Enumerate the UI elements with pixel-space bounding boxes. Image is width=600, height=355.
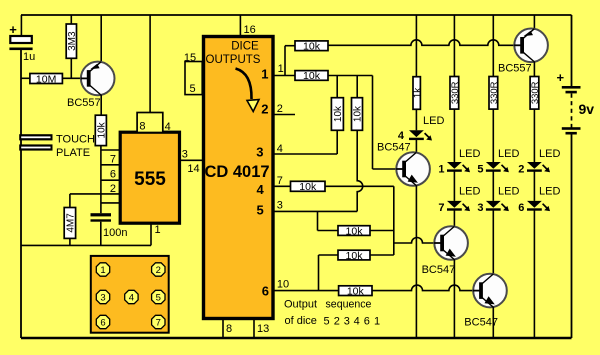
resistor R6 10k (out1) [295,70,328,82]
svg-text:1: 1 [278,63,284,75]
wire 4017 pin 13 [254,320,269,338]
wire 555 pins 8+4 supply box [137,15,163,133]
resistor R14 330R [450,77,461,110]
svg-text:16: 16 [244,24,256,36]
svg-text:1: 1 [438,163,444,175]
label output 2 inside 4017 [261,101,268,116]
svg-text:2: 2 [261,101,268,116]
label Q4 BC547 [464,316,498,328]
resistor R9 10k (out4) [291,181,326,193]
svg-text:2: 2 [334,316,340,328]
label 1 LED1 [438,163,444,175]
resistor R15 330R [489,77,500,110]
svg-text:3: 3 [182,148,188,160]
svg-text:13: 13 [257,323,269,335]
label output sequence [284,299,380,328]
svg-text:LED: LED [498,186,519,198]
dice pip 5 [152,290,165,303]
wire out5 [273,210,357,212]
pin label 4 (555) [165,121,171,133]
label 3 LED3 [477,202,483,214]
svg-text:7: 7 [156,317,161,328]
svg-text:330R: 330R [489,81,500,104]
wire to 4M7 [70,194,101,208]
svg-text:10k: 10k [303,41,321,53]
svg-text:of dice: of dice [285,315,317,327]
svg-text:330R: 330R [450,81,461,104]
svg-text:330R: 330R [530,81,541,104]
wire Q4 emitter to ground [492,307,494,338]
svg-text:3: 3 [344,316,350,328]
label LED (D4) [423,115,444,127]
svg-text:3M3: 3M3 [67,31,78,51]
svg-text:555: 555 [134,169,166,190]
svg-text:+: + [9,22,17,37]
pin label 8 (555) [139,121,145,133]
svg-text:PLATE: PLATE [56,147,90,159]
resistor R8 10k vertical (out5) [352,76,364,131]
capacitor C1 1u electrolytic [9,15,35,63]
svg-text:1: 1 [261,67,268,82]
pin label 7 (555) [110,154,116,166]
svg-text:1: 1 [374,316,380,328]
dice display box [91,256,169,333]
transistor Q2 BC547 [396,152,430,186]
svg-text:10k: 10k [346,225,364,237]
svg-text:BC557: BC557 [498,63,532,75]
wire 555 pin ladder rung2 [101,164,120,166]
wire out1 [273,75,295,77]
svg-text:10: 10 [277,279,289,291]
svg-text:OUTPUTS: OUTPUTS [206,54,261,66]
label 2 LED2 [518,163,524,175]
label 4 LED4 [398,130,405,142]
label LED (D2) [539,148,560,160]
svg-text:LED: LED [459,186,480,198]
svg-text:LED: LED [498,148,519,160]
svg-text:2: 2 [156,265,161,276]
label LED (D7) [459,186,480,198]
svg-text:6: 6 [262,284,269,299]
LED D6 [527,201,550,211]
svg-text:4: 4 [398,130,405,142]
label output 3 inside 4017 [256,144,263,159]
svg-text:BC557: BC557 [67,97,101,109]
pin label 7 (4017 out4) [277,175,283,187]
resistor R2 10M [21,73,89,85]
wire 555 pin 7 [101,149,120,151]
label LED (D5) [498,148,519,160]
svg-text:4M7: 4M7 [66,213,77,233]
pin label 10 (4017 out6) [277,279,289,291]
svg-text:7: 7 [110,154,116,166]
svg-text:LED: LED [539,186,560,198]
wire LED column 1 top [453,15,455,77]
capacitor C2 100n [91,213,128,245]
pin label 5 (4017) [190,83,196,95]
dice pip 1 [96,263,109,276]
svg-text:5: 5 [190,83,196,95]
svg-text:LED: LED [539,148,560,160]
pin label 4 (4017 out3) [277,143,283,155]
transistor Q5 BC557 (display driver) [514,15,548,77]
pin label 15 (4017) [184,52,196,64]
svg-text:5: 5 [256,203,263,218]
svg-text:6: 6 [364,316,370,328]
LED D7 [447,201,470,211]
wire Q2 emitter to ground [415,185,417,338]
resistor R13 1k [412,15,423,109]
resistor R12 10k (out6 to Q4) [339,285,372,297]
wire junction to Q3 base [394,238,437,243]
dice pip 6 [96,315,109,328]
resistor R4 4M7 [64,208,76,239]
wire LED2 to LED6 [533,171,535,201]
label 6 LED6 [518,202,524,214]
svg-text:5: 5 [156,292,161,303]
svg-text:6: 6 [110,169,116,181]
wire R15 to LED5 [492,109,494,162]
svg-text:10k: 10k [303,70,321,82]
svg-text:5: 5 [324,316,330,328]
label output 4 inside 4017 [256,182,264,197]
wire right rail lower (battery -) [571,133,573,338]
svg-text:1: 1 [100,265,105,276]
node junction out1 to 10k pair [285,46,295,76]
svg-text:LED: LED [459,148,480,160]
svg-text:10k: 10k [346,250,364,262]
battery B1 9v [557,70,595,135]
label 5 LED5 [477,163,483,175]
svg-text:5: 5 [477,163,483,175]
label Q1 BC557 [67,97,101,109]
label output 5 inside 4017 [256,203,263,218]
svg-text:6: 6 [518,202,524,214]
transistor Q1 BC557 [81,15,115,115]
wire LED column 2 top [492,15,494,77]
pin label 3 (4017 out5) [277,199,283,211]
pin label 2 (4017 out2) [277,103,283,115]
svg-text:3: 3 [477,202,483,214]
svg-text:10k: 10k [333,105,344,122]
wire R3 to 555 pin7 ladder [100,146,102,214]
svg-text:BC547: BC547 [422,264,456,276]
svg-text:1k: 1k [412,87,423,99]
svg-text:10k: 10k [353,105,364,122]
svg-text:2: 2 [110,183,116,195]
dice pip 2 [152,263,165,276]
label output 6 inside 4017 [262,284,269,299]
svg-text:3: 3 [277,199,283,211]
resistor R5 10k (to BC557 base) [295,41,328,53]
wire LED6 to ground [533,210,535,338]
svg-text:3: 3 [256,144,263,159]
label output 1 inside 4017 [261,67,268,82]
wire R8 down hop to out5 [357,130,363,211]
LED D1 [447,162,470,172]
svg-text:TOUCH: TOUCH [56,134,95,146]
arrow dice outputs rotation [236,69,260,112]
wire 4017 pin 8 [223,320,232,338]
svg-text:LED: LED [423,115,444,127]
svg-text:100n: 100n [103,227,127,239]
wire 555 pin 1 [151,223,161,245]
svg-text:7: 7 [277,175,283,187]
wire R9 to junction [325,186,394,255]
wire top positive rail [21,14,572,16]
node R1-R2 junction [70,77,72,79]
wire left rail [20,50,22,338]
label Q3 BC547 [422,264,456,276]
svg-text:2: 2 [518,163,524,175]
transistor Q3 BC547 [434,226,468,260]
wire out2 stub [273,114,295,116]
wire Q3 emitter to ground [453,259,455,338]
svg-text:2: 2 [277,103,283,115]
resistor R16 330R [530,77,541,110]
svg-text:10k: 10k [96,121,107,138]
dice pip 4 [125,290,138,303]
label 7 LED7 [438,202,444,214]
label Q2 BC547 [377,142,411,154]
transistor Q4 BC547 [473,274,507,308]
label LED (D3) [498,186,519,198]
label Q5 BC557 [498,63,532,75]
wire bottom 0V rail [21,337,572,339]
wire LED4 to Q2 [415,139,417,152]
wire R14 to LED1 [453,109,455,162]
wire 4017 pins 15+5 box [185,62,202,95]
wire LED1 to LED7 [453,171,455,201]
resistor R7 10k vertical (out3) [331,76,344,131]
wire LED7 to Q3 [453,210,455,226]
wire LED3 to Q4 [492,210,494,274]
wire oscillator ground [21,244,151,246]
svg-text:4: 4 [165,121,171,133]
wire out4 [273,185,291,187]
wire down to Q2 base [373,76,398,170]
wire LED5 to LED3 [492,171,494,201]
pin label 14 (4017) [187,163,199,175]
wire R12 to Q4 base [372,285,476,291]
pin label 2 (555) [110,183,116,195]
wire R5 to Q5 base [328,40,515,46]
svg-text:sequence: sequence [326,299,372,311]
svg-text:10k: 10k [299,181,317,193]
wire R16 to LED2 [533,109,535,162]
wire 555 pin ladder rung3 [101,179,120,181]
svg-text:10M: 10M [36,73,56,85]
svg-text:6: 6 [100,317,105,328]
svg-text:8: 8 [139,121,145,133]
svg-text:+: + [557,70,565,85]
resistor R11 10k (out6 to Q3) [319,250,394,291]
svg-text:1: 1 [155,224,161,236]
pin label 1 (4017 out1) [278,63,284,75]
wire 4M7 to ground wire [69,238,71,245]
svg-text:CD 4017: CD 4017 [204,163,269,181]
svg-text:9v: 9v [579,101,595,117]
touch plate [19,134,95,160]
pin label 6 (555) [110,169,116,181]
LED D4 [409,130,432,140]
svg-text:10k: 10k [347,285,365,297]
svg-text:4: 4 [256,182,264,197]
svg-text:BC547: BC547 [377,142,411,154]
wire 555 pin3 to 4017 pin14 [180,159,203,161]
LED D3 [486,201,509,211]
pin label 3 (555) [182,148,188,160]
LED D2 [527,162,550,172]
resistor R3 10k [95,115,107,145]
LED D5 [486,162,509,172]
wire 555 pin ladder rung5 [101,202,120,204]
wire 1k to LED4 [415,109,417,130]
wire 4017 pin 16 [240,15,255,36]
resistor R10 10k (out5 to Q3) [318,211,394,237]
svg-text:8: 8 [226,323,232,335]
label LED (D1) [459,148,480,160]
svg-text:1u: 1u [23,51,35,63]
IC U1 555 timer [120,132,179,223]
svg-text:15: 15 [184,52,196,64]
wire 555 pin ladder rung4 [101,193,120,195]
svg-text:4: 4 [129,292,134,303]
wire out6 [273,290,339,292]
svg-text:7: 7 [438,202,444,214]
wire R6 right run [328,75,373,77]
svg-text:14: 14 [187,163,199,175]
svg-text:3: 3 [100,292,105,303]
dice pip 3 [96,290,109,303]
IC U2 CD4017 [204,37,274,319]
svg-text:Output: Output [284,299,317,311]
wire right rail upper (battery +) [571,15,573,86]
label LED (D6) [539,186,560,198]
wire R7 to out3 [273,130,337,154]
svg-text:DICE: DICE [231,41,259,53]
svg-text:4: 4 [354,316,360,328]
resistor R1 3M3 [66,15,78,78]
dice pip 7 [152,315,165,328]
